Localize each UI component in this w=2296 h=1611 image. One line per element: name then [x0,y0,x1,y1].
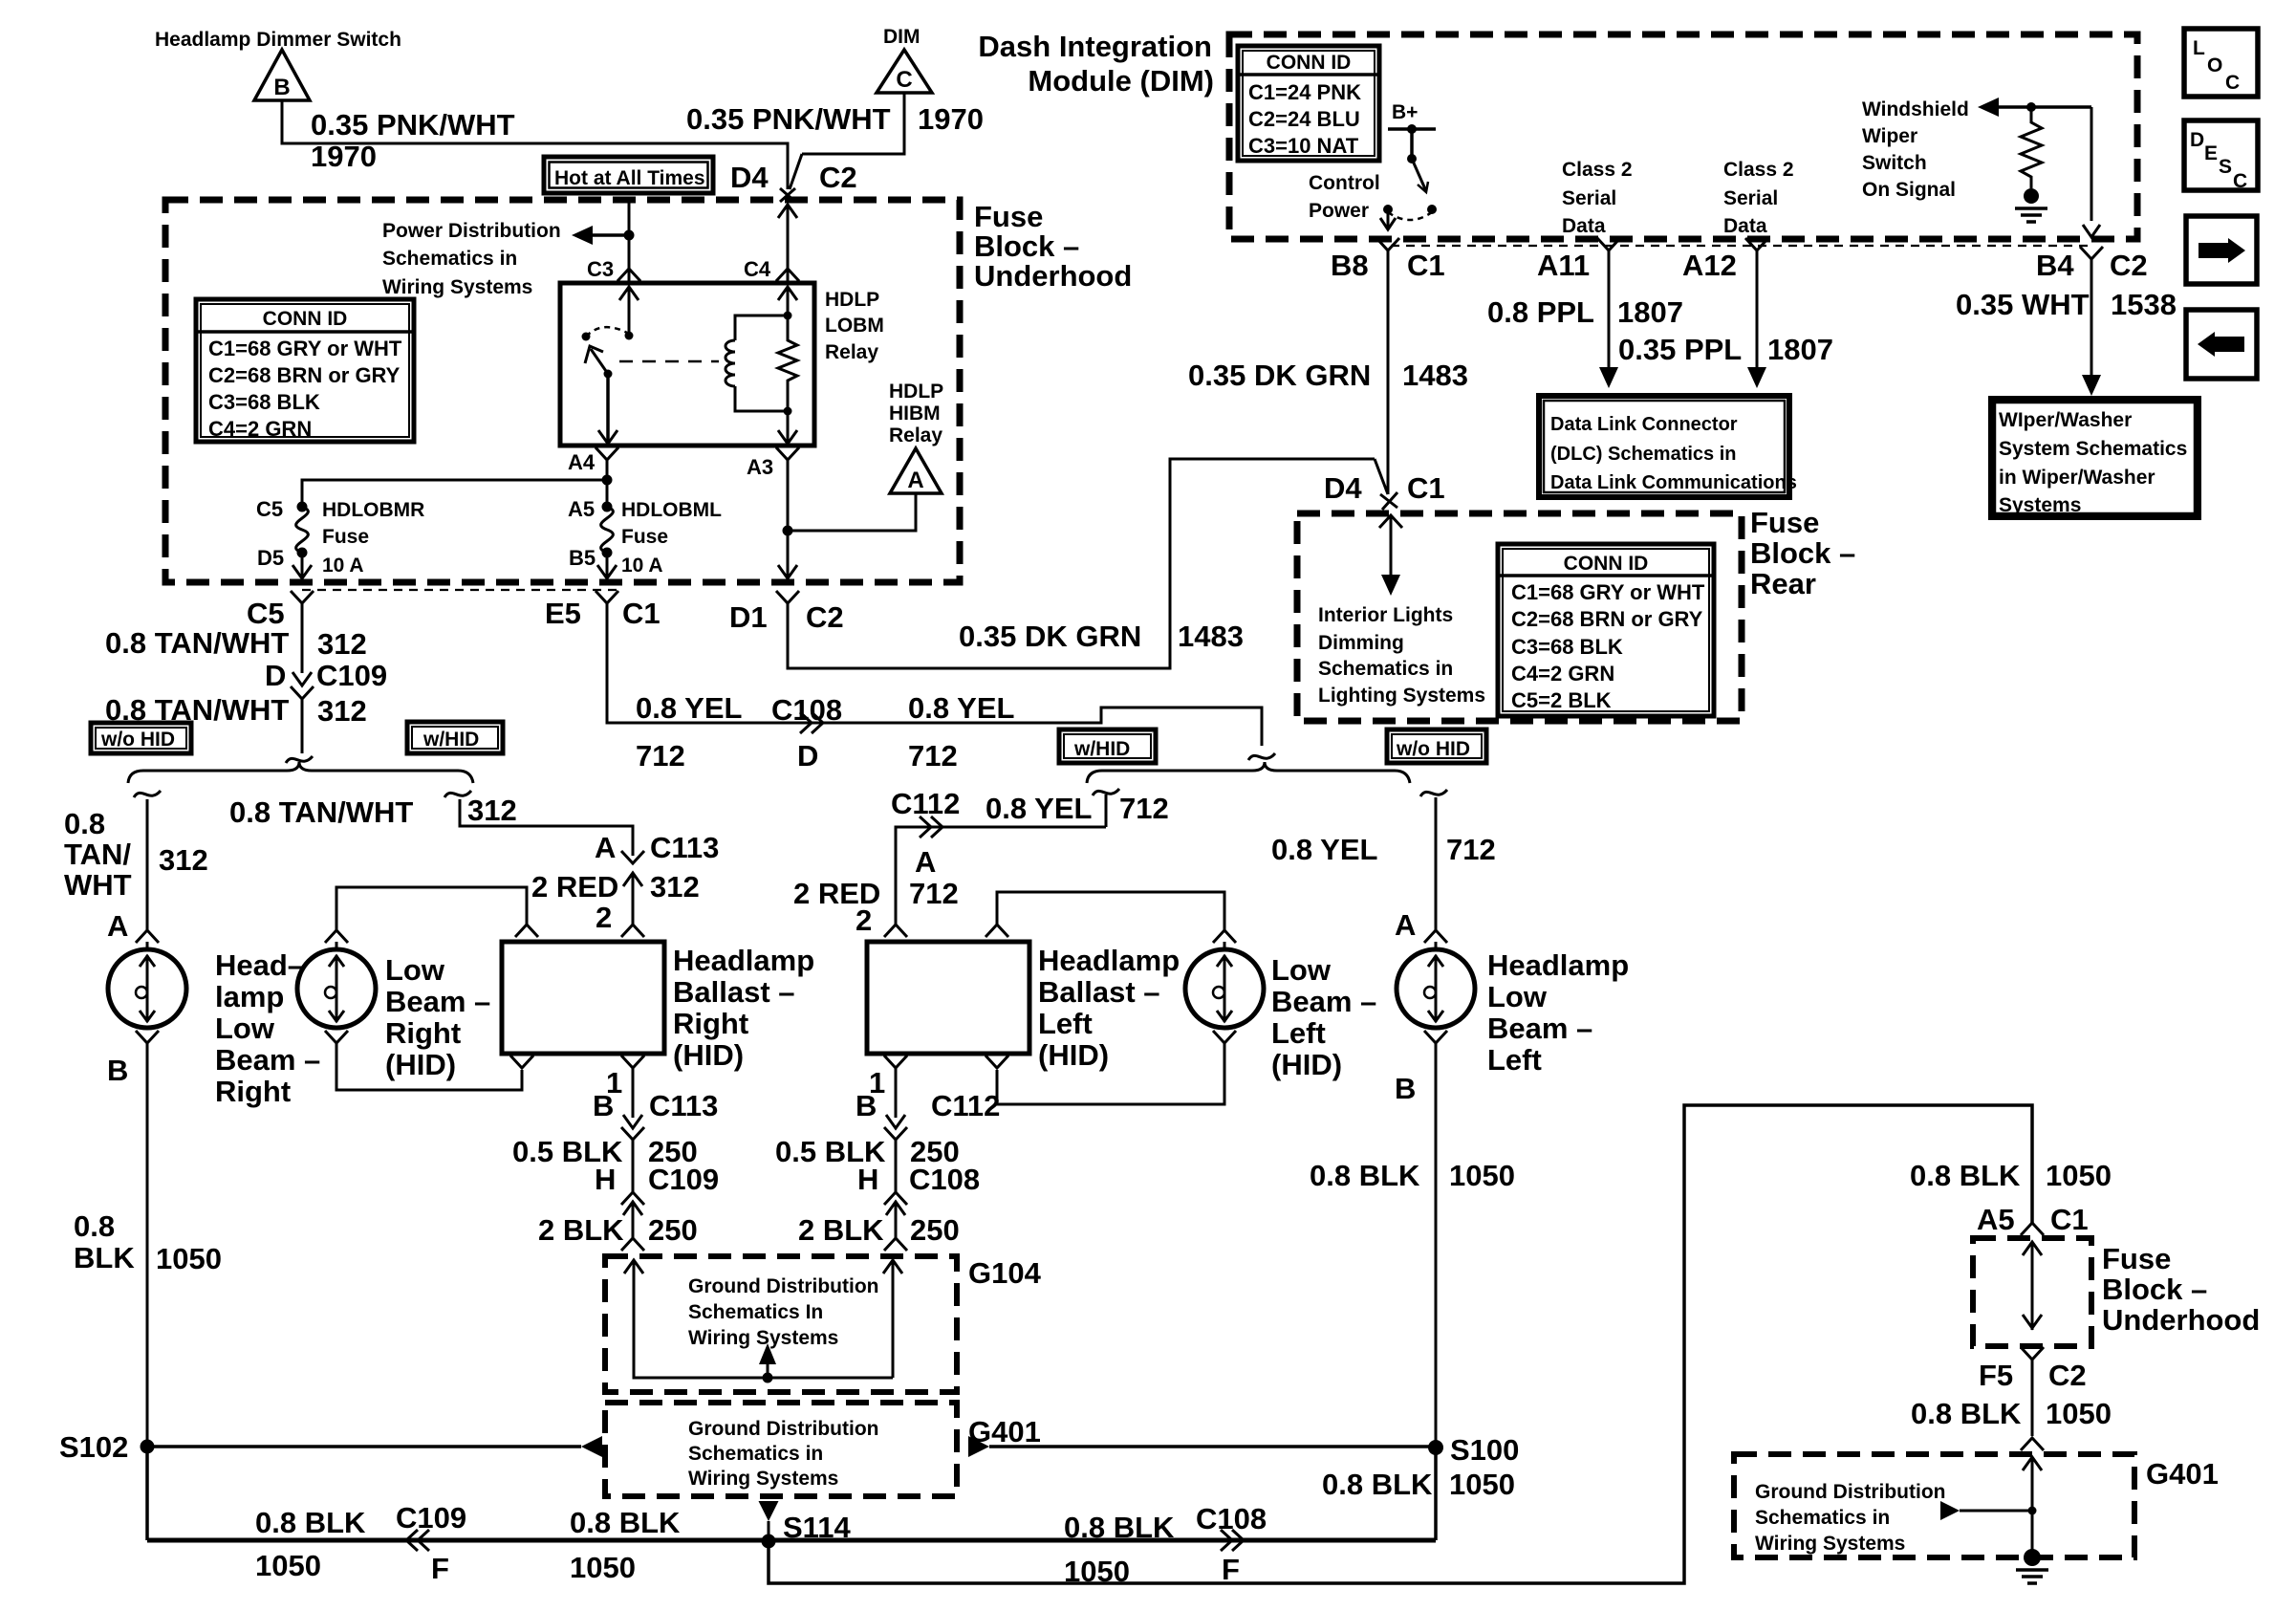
relay switch center contact dot [625,332,634,340]
svg-text:C113: C113 [650,831,719,864]
svg-text:1483: 1483 [1402,359,1468,392]
svg-text:250: 250 [910,1213,960,1247]
svg-text:A: A [1395,908,1416,942]
svg-text:Data: Data [1562,215,1606,237]
wire 0.35 WHT 1538 to wiper washer box [2090,259,2093,375]
connector chevron into G104 [621,1238,644,1251]
svg-text:Wiring Systems: Wiring Systems [1755,1533,1905,1555]
svg-text:S114: S114 [783,1511,851,1544]
off-page triangle A (HDLP HIBM Relay) [890,448,942,493]
svg-text:Schematics in: Schematics in [688,1443,823,1465]
wiper resistor ground dot [2024,188,2039,204]
svg-text:0.8 YEL: 0.8 YEL [1271,833,1377,866]
relay coil top junction dot [784,312,792,320]
svg-text:Rear: Rear [1750,567,1816,600]
svg-text:S102: S102 [59,1430,128,1464]
wiper resistor junction dot [2026,102,2036,112]
svg-text:Control: Control [1309,172,1380,194]
right merge brace [1087,762,1410,783]
svg-text:1970: 1970 [311,140,377,173]
svg-text:312: 312 [317,627,367,661]
relay resistor [778,316,797,411]
svg-text:Schematics in: Schematics in [382,248,517,270]
inline connector C108-H [884,1192,907,1205]
option label w/o HID (left) [91,723,191,753]
svg-text:1050: 1050 [570,1551,636,1584]
svg-text:C113: C113 [649,1089,718,1122]
svg-text:Fuse: Fuse [974,200,1043,233]
wire through fuse block right [2023,1242,2042,1255]
wire diagonal into connector C2-D4 [790,154,802,189]
svg-text:Ballast –: Ballast – [1038,975,1160,1009]
option label w/o HID (right) [1387,729,1486,763]
svg-text:C2: C2 [2048,1359,2087,1392]
wire loop lamp to ballast (bottom) [336,1043,522,1090]
svg-text:Schematics In: Schematics In [688,1301,823,1323]
svg-text:C: C [2233,170,2247,192]
svg-text:Lighting Systems: Lighting Systems [1318,685,1485,707]
svg-text:C109: C109 [396,1501,466,1535]
inline connector C108-F [1221,1530,1232,1551]
connector chevron A5/C1 [2021,1223,2044,1235]
svg-text:Interior Lights: Interior Lights [1318,604,1453,626]
svg-text:Headlamp: Headlamp [1038,944,1180,977]
svg-text:B: B [107,1054,128,1087]
svg-text:Systems: Systems [1999,494,2081,516]
svg-text:A5: A5 [568,497,595,521]
wiper pull-up resistor [2021,107,2042,188]
svg-text:C112: C112 [931,1089,1000,1122]
svg-text:Fuse: Fuse [621,526,668,548]
svg-text:C2=68 BRN or GRY: C2=68 BRN or GRY [1511,607,1703,631]
svg-text:LOBM: LOBM [825,315,884,337]
headlamp ballast left box [867,942,1029,1054]
svg-text:Windshield: Windshield [1862,98,1969,120]
svg-text:0.8 BLK: 0.8 BLK [570,1506,681,1539]
svg-text:F: F [431,1552,449,1585]
relay switch pivot dot [604,370,613,379]
svg-text:712: 712 [1446,833,1496,866]
svg-text:C108: C108 [771,693,842,727]
svg-text:B: B [1395,1072,1416,1105]
fuse block rear dashed outline [1297,513,1742,721]
svg-text:F5: F5 [1979,1359,2013,1392]
svg-text:C3: C3 [587,257,614,281]
wire windshield signal to B4 [2090,107,2093,221]
svg-text:TAN/: TAN/ [64,838,131,871]
wire 2 RED to ballast left [895,856,898,925]
inline connector C109-D [292,672,312,686]
svg-text:(HID): (HID) [1271,1048,1342,1081]
wire 2 RED 312 to ballast right [632,913,635,925]
svg-text:312: 312 [650,870,700,903]
wire from A4 junction to fuse C5 [302,480,607,507]
wire F5 to G401 [2031,1360,2034,1436]
wire w/HID (left side) from brace [1093,789,1119,795]
fuse HDLOBML A5-B5 [602,502,613,512]
svg-text:0.8 BLK: 0.8 BLK [1911,1397,2022,1430]
svg-text:Headlamp: Headlamp [673,944,814,977]
svg-text:712: 712 [908,739,958,773]
svg-text:B5: B5 [569,546,596,570]
svg-text:Class 2: Class 2 [1562,159,1633,181]
svg-text:Relay: Relay [825,341,878,363]
wire 2 BLK 250 (left) [895,1202,898,1238]
legend box LOC [2184,29,2258,97]
svg-text:A3: A3 [747,455,773,479]
svg-text:WHT: WHT [64,868,132,902]
svg-text:Relay: Relay [889,425,942,446]
svg-text:CONN ID: CONN ID [263,308,348,330]
wire A11 to DLC [1608,250,1611,367]
svg-text:D: D [265,659,286,692]
svg-text:C4=2 GRN: C4=2 GRN [1511,662,1614,686]
svg-text:2: 2 [596,901,612,934]
lamp left bottom chevron [1424,1031,1447,1043]
svg-text:0.8 BLK: 0.8 BLK [1910,1159,2021,1192]
svg-text:2 RED: 2 RED [531,870,618,903]
svg-text:BLK: BLK [74,1241,135,1274]
svg-text:0.8 TAN/WHT: 0.8 TAN/WHT [105,626,289,660]
svg-text:Right: Right [385,1016,461,1050]
dash integration module dashed outline [1229,34,2137,239]
svg-text:2: 2 [856,903,872,937]
svg-text:C2: C2 [2110,249,2148,282]
G401 right internal wire [2023,1457,2042,1470]
headlamp low beam right lamp [136,930,159,943]
junction dot on C3 wire [624,230,635,241]
break squiggle above right brace [1248,753,1275,760]
svg-text:C: C [2225,72,2240,94]
svg-text:Headlamp Dimmer Switch: Headlamp Dimmer Switch [155,29,401,51]
connector crossing mark D4/C1 [1380,494,1397,508]
wire 0.8 TAN/WHT 312 (lower) [301,699,304,753]
svg-text:1483: 1483 [1178,620,1244,653]
svg-text:Head–: Head– [215,948,304,982]
svg-text:C3=10 NAT: C3=10 NAT [1248,134,1359,158]
svg-text:C109: C109 [316,659,387,692]
wire 0.8 YEL 712 from E5 [607,603,1262,746]
DIM switch blade [1412,159,1426,191]
svg-text:A12: A12 [1682,249,1737,282]
break squiggle w/o HID branch [1420,790,1447,796]
relay coil bottom junction dot [784,407,792,416]
svg-text:Module (DIM): Module (DIM) [1028,64,1214,98]
option label w/HID (right) [1059,729,1156,763]
headlamp ballast right box [502,942,664,1054]
junction dot to HIBM relay [783,526,793,536]
svg-text:G104: G104 [968,1256,1042,1290]
break squiggle right branch of left brace [444,791,471,797]
svg-text:A5: A5 [1977,1203,2015,1236]
wire 0.8 YEL 712 to headlamp low beam left [1435,797,1438,930]
svg-text:C1=68 GRY or WHT: C1=68 GRY or WHT [208,337,402,360]
wire 2 RED loop lamp to ballast (top) [336,887,527,930]
pin C4 wire from D4/C2 into relay [787,204,790,283]
svg-text:H: H [857,1163,878,1196]
svg-text:Beam –: Beam – [385,985,490,1018]
svg-text:Ground Distribution: Ground Distribution [1755,1481,1945,1503]
svg-text:HDLOBML: HDLOBML [621,499,722,521]
svg-text:Right: Right [215,1075,291,1108]
svg-text:D4: D4 [730,161,769,194]
S114 branch wire to fuse block underhood [769,1105,2032,1583]
svg-text:0.35 DK GRN: 0.35 DK GRN [959,620,1141,653]
svg-text:C112: C112 [891,787,960,820]
svg-text:On Signal: On Signal [1862,179,1956,201]
svg-text:Switch: Switch [1862,152,1927,174]
svg-text:0.35 PNK/WHT: 0.35 PNK/WHT [311,108,515,142]
svg-text:C2: C2 [819,161,857,194]
svg-text:C4=2 GRN: C4=2 GRN [208,417,312,441]
wire lamp right B down to S102 [146,1043,149,1447]
thin dashed line below DIM [1391,245,2093,247]
svg-text:E5: E5 [545,597,581,630]
svg-text:CONN ID: CONN ID [1267,52,1352,74]
svg-text:Wiring Systems: Wiring Systems [382,276,532,298]
svg-text:Schematics in: Schematics in [1318,658,1453,680]
svg-text:(HID): (HID) [385,1048,456,1081]
fuse block underhood (right) dashed box [1973,1238,2091,1346]
ground symbol (wiper) [2015,207,2047,210]
svg-text:C2: C2 [806,600,844,634]
svg-text:H: H [595,1163,616,1196]
svg-text:B: B [593,1089,614,1122]
relay right rail [778,287,797,300]
main ground wire 0.8 BLK 1050 [147,1538,1436,1543]
svg-text:Block –: Block – [1750,536,1855,570]
svg-text:B: B [856,1089,877,1122]
relay mechanical dashed link [619,360,719,363]
wire w/HID branch to C113 [460,799,633,856]
svg-text:Fuse: Fuse [322,526,369,548]
G401 ground dot [2024,1549,2041,1566]
svg-text:Ballast –: Ballast – [673,975,795,1009]
svg-text:D: D [2190,129,2204,151]
svg-text:Low: Low [385,953,445,987]
svg-text:A: A [595,831,616,864]
svg-text:w/o HID: w/o HID [1396,738,1470,760]
DIM switch contact dot right [1427,205,1437,214]
DIM switch dashed arc [1388,212,1432,220]
wire S100 column down [1434,1447,1438,1540]
svg-text:G401: G401 [2146,1457,2219,1491]
svg-text:(DLC) Schematics in: (DLC) Schematics in [1550,444,1736,465]
svg-text:1050: 1050 [1449,1159,1515,1192]
svg-text:0.8 YEL: 0.8 YEL [908,691,1014,725]
svg-text:1807: 1807 [1617,295,1683,329]
lamp right bottom chevron [136,1031,159,1043]
svg-text:0.8: 0.8 [74,1209,115,1243]
svg-text:B8: B8 [1331,249,1369,282]
svg-text:2 BLK: 2 BLK [538,1213,624,1247]
off-page connector triangle C (DIM) [877,50,932,93]
svg-text:Wiring Systems: Wiring Systems [688,1468,838,1490]
label Hot at All Times [544,157,713,193]
option label w/HID (left) [407,722,503,753]
svg-text:0.8: 0.8 [64,807,105,840]
svg-text:Beam –: Beam – [1271,985,1376,1018]
wire 0.35 DK GRN from D1/C2 [788,459,1375,668]
svg-text:312: 312 [467,794,517,827]
low beam right HID top connector [325,930,348,943]
svg-text:Fuse: Fuse [1750,506,1819,539]
svg-text:Left: Left [1487,1043,1542,1077]
svg-text:0.35 PPL: 0.35 PPL [1618,333,1742,366]
inline connector C108-D [800,712,812,733]
svg-text:C5=2 BLK: C5=2 BLK [1511,688,1612,712]
svg-text:D: D [797,739,818,773]
wire G401 to S100 [968,1436,989,1457]
svg-text:Block –: Block – [2102,1273,2207,1306]
svg-text:C3=68 BLK: C3=68 BLK [1511,635,1623,659]
svg-text:WIper/Washer: WIper/Washer [1999,409,2132,431]
wire lamp left B down to S100 [1435,1043,1438,1447]
ballast left top-right pin to lamp loop [986,925,1008,937]
svg-text:C4: C4 [744,257,771,281]
svg-text:1970: 1970 [918,102,984,136]
inline connector C112-B [886,1115,905,1128]
svg-text:712: 712 [1119,792,1169,825]
wire fuse D5 down [301,553,304,580]
svg-text:1050: 1050 [1449,1468,1515,1501]
svg-text:Beam –: Beam – [1487,1012,1592,1045]
svg-text:Power: Power [1309,200,1369,222]
fuse HDLOBMR C5-D5 [297,502,308,512]
wire w/o HID branch down to lamp [146,799,149,930]
svg-text:A: A [107,909,128,943]
svg-text:D5: D5 [257,546,284,570]
wire diagonal into D4/C1 [1375,459,1388,494]
svg-text:Ground Distribution: Ground Distribution [688,1418,878,1440]
ground distribution G401 dashed box (right) [1734,1454,2134,1557]
svg-text:A4: A4 [568,450,596,474]
wire 0.8 YEL 712 horizontal to ballast left [896,827,1106,856]
break squiggle above left brace [286,756,313,763]
wire S102 down to main ground wire [145,1447,149,1540]
svg-text:250: 250 [648,1213,698,1247]
junction dot A4/A5 [602,475,613,486]
svg-text:0.8 PPL: 0.8 PPL [1487,295,1594,329]
wire S102 to G401 [147,1445,581,1448]
inline connector C109-F [406,1530,418,1551]
B+ terminal [1388,127,1436,131]
S114 ground triangle [759,1501,779,1521]
thin dashed connector line below fuse block [302,589,619,591]
relay switch blade with arrow [591,349,608,374]
svg-text:Left: Left [1271,1016,1326,1050]
svg-text:A11: A11 [1537,249,1590,282]
svg-text:w/o HID: w/o HID [100,729,175,751]
svg-text:C3=68 BLK: C3=68 BLK [208,390,320,414]
svg-text:Fuse: Fuse [2102,1242,2171,1275]
svg-text:1050: 1050 [2046,1397,2112,1430]
svg-text:HDLP: HDLP [889,381,943,403]
left merge brace [128,762,473,783]
svg-text:C1=24 PNK: C1=24 PNK [1248,80,1361,104]
rear conn id table [1498,544,1714,716]
svg-text:HDLOBMR: HDLOBMR [322,499,424,521]
S100 splice dot [1428,1440,1443,1455]
ballast left bottom-left pin [884,1056,907,1068]
svg-text:Data: Data [1723,215,1767,237]
svg-text:C108: C108 [909,1163,980,1196]
svg-text:0.35 DK GRN: 0.35 DK GRN [1188,359,1371,392]
connector chevron B4 [2080,247,2103,259]
svg-text:Right: Right [673,1007,748,1040]
svg-text:L: L [2193,37,2205,59]
svg-text:712: 712 [636,739,685,773]
DIM switch contact dot left (control power) [1383,205,1393,214]
svg-text:Wiring Systems: Wiring Systems [688,1327,838,1349]
svg-text:Hot at All Times: Hot at All Times [554,167,705,189]
svg-text:312: 312 [159,843,208,877]
connector chevron B8 [1376,238,1399,250]
wire 0.35 PNK/WHT 1970 from triangle C [802,93,904,154]
svg-text:C2=24 BLU: C2=24 BLU [1248,107,1360,131]
svg-text:C1: C1 [2050,1203,2089,1236]
wire into interior lights dimming [1379,515,1402,528]
svg-text:C108: C108 [1196,1502,1267,1535]
svg-text:Ground Distribution: Ground Distribution [688,1275,878,1297]
svg-text:C1: C1 [1407,249,1445,282]
svg-text:D4: D4 [1324,471,1362,505]
connector chevron into G104 (left) [884,1238,907,1251]
svg-text:Schematics in: Schematics in [1755,1507,1890,1529]
svg-text:w/HID: w/HID [422,729,479,751]
ground distribution G104 dashed box [605,1256,957,1392]
low beam right HID lamp [297,949,376,1028]
connector chevron E5 below fuse block [596,591,618,603]
wire C3 into relay [628,202,631,283]
ground distribution G401 dashed box (center) [605,1403,957,1496]
break squiggle left branch [134,791,161,797]
svg-text:(HID): (HID) [673,1038,744,1072]
wire ballast left pin1 down [895,1068,898,1118]
relay switch dashed arc [586,327,629,337]
data link connector schematics box [1539,396,1789,497]
svg-text:Underhood: Underhood [974,259,1132,293]
svg-text:Beam –: Beam – [215,1043,320,1077]
svg-text:1050: 1050 [2046,1159,2112,1192]
svg-text:S: S [2219,156,2232,178]
relay coil [735,316,788,340]
off-page connector triangle B (Headlamp Dimmer Switch) [254,50,310,100]
G104 internal ground bus [624,1260,643,1274]
relay switch output wire [606,374,610,446]
S102 splice dot [141,1440,155,1454]
wire 0.5 BLK 250 (left) [895,1140,898,1192]
svg-text:(HID): (HID) [1038,1038,1109,1072]
relay switch feed wire [619,287,639,300]
svg-text:Class 2: Class 2 [1723,159,1794,181]
svg-text:System Schematics: System Schematics [1999,438,2187,460]
connector chevron C4 at relay [776,269,799,281]
connector chevron C5 below fuse block [291,591,314,603]
svg-text:B+: B+ [1392,101,1418,123]
svg-text:CONN ID: CONN ID [1564,553,1649,575]
low beam right HID bottom chevron [325,1031,348,1043]
svg-text:C1: C1 [1407,471,1445,505]
legend box left arrow [2186,310,2257,379]
svg-text:A: A [907,468,923,493]
underhood conn id table [196,299,414,442]
connector chevron F5/C2 [2021,1347,2044,1360]
ground symbol (G401) [2016,1568,2048,1572]
fuse block underhood dashed outline [165,200,960,582]
svg-text:D1: D1 [729,600,768,634]
svg-text:lamp: lamp [215,980,284,1013]
